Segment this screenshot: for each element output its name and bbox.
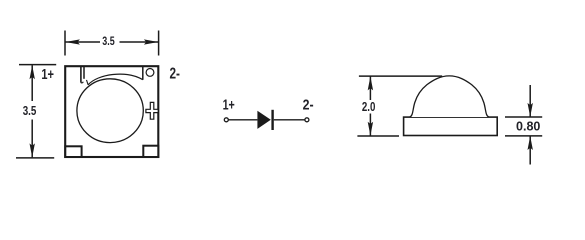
dim 3.5 width: right extension line (158, 31, 160, 56)
svg-text:2-: 2- (170, 65, 181, 82)
diode D1: anode terminal node 1+ (224, 118, 228, 122)
dim 3.5 height: bottom extension line (16, 157, 54, 159)
dim 3.5 width: left extension line (64, 31, 66, 56)
dim 0.80: lower arrow (points up) (528, 136, 533, 150)
dim 0.80: upper arrow (points down) (528, 103, 533, 117)
svg-text:1+: 1+ (223, 97, 235, 114)
dim 2.0: top arrow (368, 76, 373, 90)
pad mark bottom-left (65, 146, 81, 157)
dim 3.5 height: top extension line (19, 64, 56, 66)
dim 3.5 width: dimension line (66, 41, 101, 43)
LED package body outline U1 (top view) (65, 66, 158, 157)
wire cathode (274, 119, 305, 121)
svg-text:3.5: 3.5 (102, 34, 115, 48)
diode D1 triangle (257, 111, 270, 129)
LED base substrate (side view) (404, 117, 498, 135)
svg-text:2-: 2- (303, 97, 314, 114)
dim 0.80: lower leader line (529, 136, 531, 164)
cathode terminal node 2- (305, 118, 309, 122)
dim 0.80: upper leader line (529, 85, 531, 117)
dim 3.5 width: right arrow (144, 39, 159, 44)
dim 0.80: bottom extension line (505, 135, 542, 137)
anode notch mark (80, 67, 82, 83)
cathode corner mark line (142, 67, 144, 80)
dim 2.0: dimension line (369, 77, 371, 101)
svg-text:3.5: 3.5 (23, 103, 37, 118)
dim 3.5 height: top arrow (30, 65, 35, 79)
dim 2.0: bottom arrow (368, 122, 373, 136)
dim 3.5 height: bottom arrow (30, 143, 35, 157)
svg-text:1+: 1+ (41, 66, 54, 83)
dim 2.0: bottom extension line (357, 135, 399, 137)
lens flange arc (88, 74, 143, 85)
diode D1 cathode bar (271, 110, 273, 130)
LED lens circle (77, 79, 143, 143)
svg-text:0.80: 0.80 (516, 119, 540, 134)
cathode cross mark on right edge (146, 102, 158, 119)
dim 3.5 width: left arrow (65, 39, 80, 44)
dim 2.0: top extension line (359, 75, 442, 77)
pad mark bottom-right (143, 146, 158, 157)
index hole (146, 69, 154, 77)
dim 0.80: top extension line (505, 116, 542, 118)
wire anode (228, 119, 257, 121)
svg-text:2.0: 2.0 (362, 99, 376, 114)
dim 3.5 height: dimension line (31, 65, 33, 101)
lens dome (side view) (410, 76, 489, 117)
